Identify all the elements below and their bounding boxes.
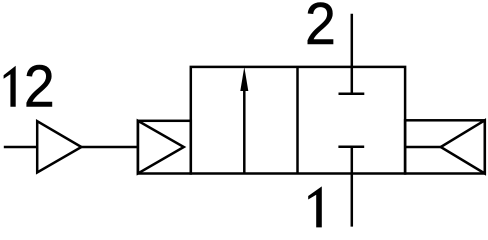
svg-text:2: 2 [24,54,55,120]
svg-text:2: 2 [305,0,336,58]
